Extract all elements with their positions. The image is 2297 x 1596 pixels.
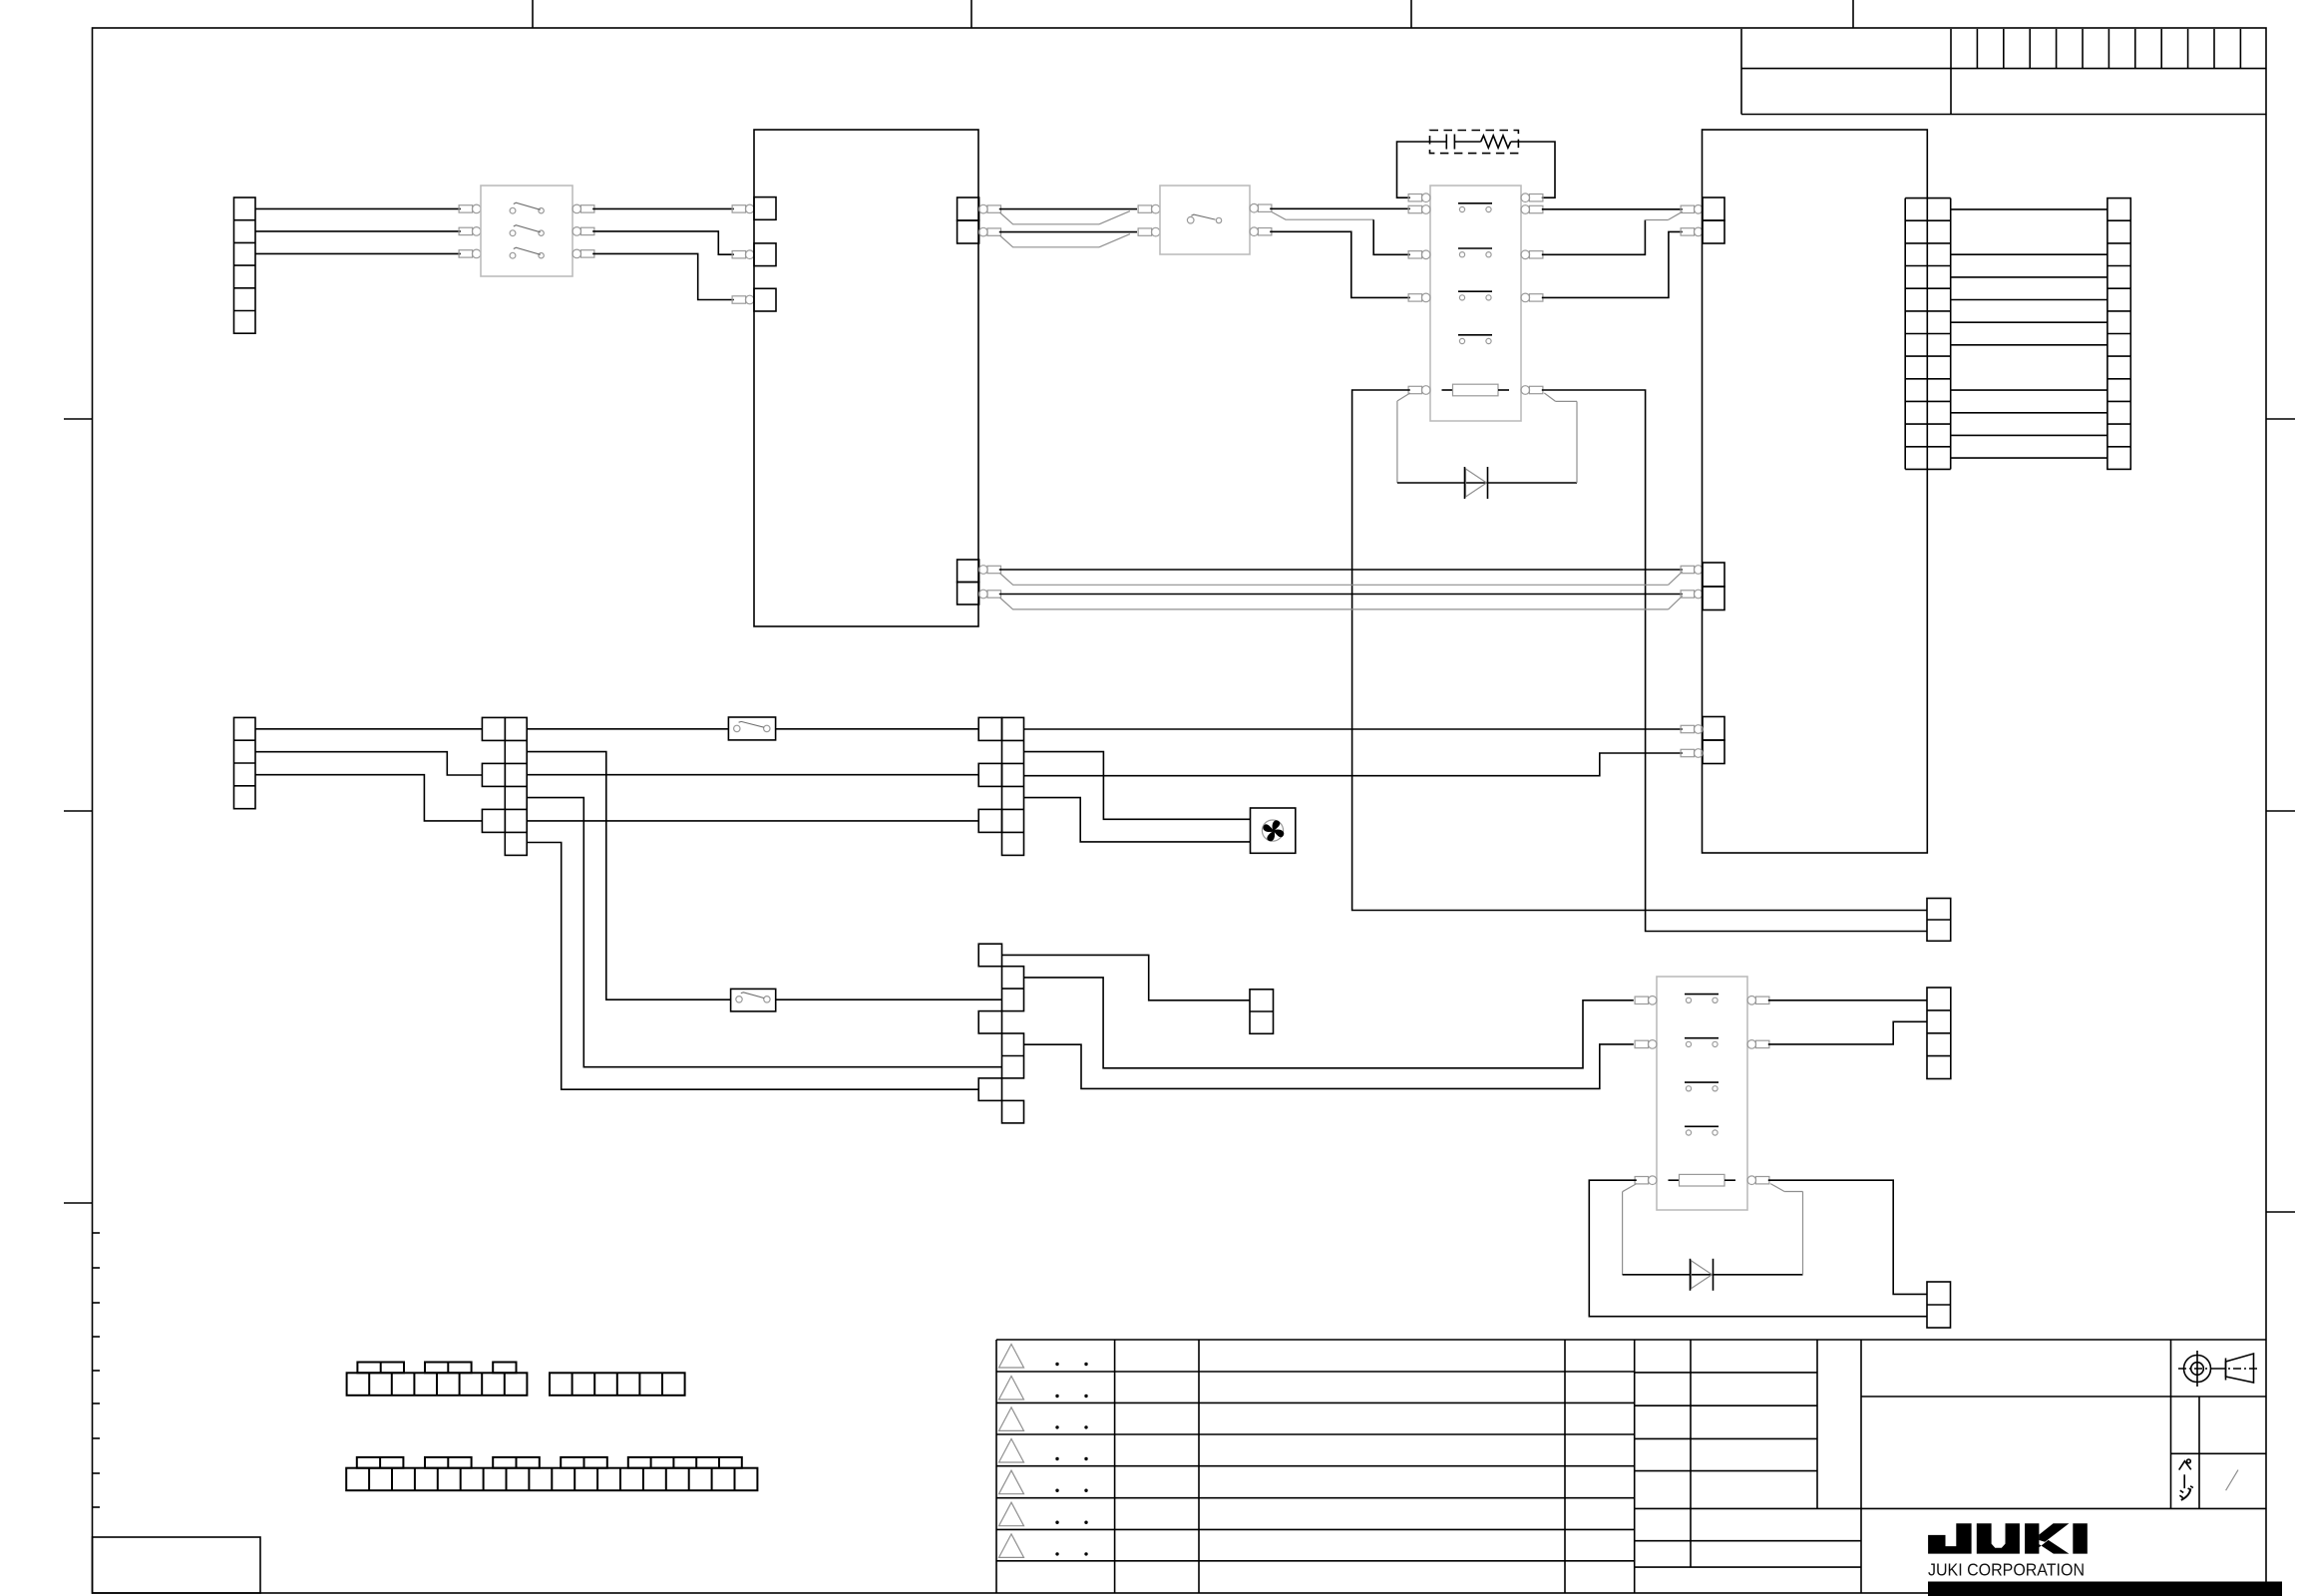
wire RY1 coil right to connector CN-C2: [1542, 390, 1927, 932]
wire pair PSU E2 to CTRL G2 (return): [999, 598, 1668, 609]
crimp terminal SW2 out1: [1250, 203, 1259, 212]
capacitor C1 plates: [1445, 135, 1447, 150]
relay RY2 coil crimp right: [1747, 1176, 1756, 1185]
wire SW1 to PSU pin C: [592, 253, 734, 299]
wire RY2 coil right to connector CN-I1: [1768, 1180, 1927, 1294]
relay RY1 snubber crimp right: [1521, 194, 1530, 202]
wire SW1 to PSU pin B: [592, 231, 734, 254]
wire CN-B pin1 to CN-D: [255, 728, 482, 730]
relay RY1 contacts 1-4: [1458, 202, 1492, 204]
wire SW2 to relay RY1 contact 1: [1270, 207, 1410, 209]
crimp terminal PSU out E1: [979, 566, 988, 575]
crimp terminal PSU out D1: [979, 204, 988, 213]
wire CN-A pin1 to switch SW1: [255, 207, 461, 209]
relay RY1 contact2 crimp right: [1521, 250, 1530, 259]
relay RY2 contact1 crimp right: [1747, 997, 1756, 1005]
wire pair PSU E2 to CTRL G2 (black): [999, 594, 1683, 596]
top edge zone tick 4: [1852, 0, 1854, 28]
wire resistor to relay RY1 right snubber terminal: [1511, 142, 1555, 198]
title block middle rows: [1635, 1372, 1817, 1374]
wire CN-B pin2 to CN-D: [255, 752, 482, 775]
relay RY2 coil loop left (return): [1623, 1184, 1637, 1192]
left border ruler ticks: [92, 1232, 100, 1234]
wire CN-B pin3 to CN-D: [255, 775, 482, 821]
PSU pin box A: [754, 198, 776, 220]
top edge zone tick 1: [532, 0, 534, 28]
wire CN-D r4 down to CN-G: [527, 798, 1001, 1067]
crimp terminal SW2 in1: [1138, 205, 1152, 212]
wire pair PSU E1 to CTRL G1 (black): [999, 569, 1683, 571]
wire CN-E r3 to CTRL pin H2: [1024, 753, 1683, 776]
wire RY1 coil left to connector CN-C1: [1352, 390, 1927, 911]
wire pair SW2 to relay RY1 contact 2 (return jog): [1272, 212, 1373, 220]
wire pair PSU E1 to CTRL G1 (return): [999, 574, 1668, 586]
wire CN-D r1 to thermostat SW3: [527, 728, 728, 730]
crimp terminal SW1 out2: [573, 227, 581, 236]
wire CN-E r1 to CTRL pin H1: [1024, 728, 1683, 730]
connector pair CN-G (staggered 8-pin): [978, 944, 1001, 967]
relay RY2 contacts 1-4: [1685, 994, 1719, 996]
right edge zone tick 3: [2266, 1211, 2295, 1213]
relay RY1 contact3 crimp left: [1408, 294, 1422, 301]
relay RY2 coil loop right (return): [1770, 1184, 1784, 1192]
wire SW2 to relay RY1 contact 3: [1270, 231, 1410, 297]
relay RY1 contact1 crimp right: [1521, 205, 1530, 214]
wire CN-G r5 to relay RY2 contact2: [1024, 1044, 1634, 1089]
connector CN-A (6-pin, mains input): [234, 198, 256, 333]
relay RY1 contact3 crimp right: [1521, 293, 1530, 302]
title block lower rows: [1635, 1540, 1861, 1542]
crimp terminal PSU out E2: [979, 590, 988, 598]
cooling fan FM1: [1251, 808, 1296, 853]
wire pair PSU D1 to switch SW2 (return): [999, 212, 1099, 224]
crimp terminal CTRL pin H1: [1681, 725, 1695, 732]
wire pair PSU D2 to switch SW2 (black): [999, 231, 1137, 233]
left edge zone tick 1: [64, 418, 92, 420]
wire CN-A pin3 to switch SW1: [255, 252, 461, 254]
PSU pin box B: [754, 243, 776, 266]
crimp terminal CTRL pin F2: [1681, 228, 1695, 235]
power supply box PSU: [754, 130, 978, 626]
page cell divider: [2198, 1396, 2200, 1508]
crimp terminal CTRL pin G1: [1681, 566, 1695, 573]
relay RY1 coil crimp left: [1408, 386, 1422, 393]
JUKI logo: [1928, 1523, 1972, 1553]
wire RY1 contact1 to CTRL pin F1: [1542, 208, 1683, 210]
wire RY2 contact1 to connector CN-F1: [1768, 999, 1927, 1001]
bottom-left reference box: [93, 1537, 261, 1593]
left edge zone tick 2: [64, 810, 92, 812]
wire RY2 contact2 to connector CN-F2: [1768, 1021, 1927, 1044]
legend connector group 3 (18-pin with keys): [346, 1468, 757, 1491]
CTRL pin box F1-F2: [1703, 198, 1724, 220]
wire CN-D r6 down to CN-G: [527, 843, 978, 1090]
crimp terminal SW2 out2: [1250, 227, 1259, 236]
connector pair CN-D (staggered 6-pin): [482, 717, 505, 740]
drawing number row: [1861, 1396, 2266, 1397]
main power switch SW1 (3-pole): [481, 186, 573, 276]
relay RY1 coil loop left (return): [1397, 393, 1410, 401]
wire pair PSU D2 to switch SW2 (return): [999, 235, 1099, 247]
relay RY1 snubber crimp left: [1408, 195, 1422, 201]
crimp terminal SW1 in1: [459, 205, 473, 212]
top-right revision strip table outline: [1740, 29, 1742, 115]
crimp terminal SW2 in2: [1138, 228, 1152, 235]
wire CN-G r2 to relay RY2 contact1: [1024, 978, 1634, 1068]
title block thick divider 4: [2170, 1340, 2172, 1508]
thermostat switch SW3: [728, 717, 775, 740]
top edge zone tick 3: [1410, 0, 1412, 28]
wire relay RY1 snubber terminal to RC box: [1397, 142, 1447, 198]
relay RY1 body: [1430, 186, 1521, 421]
title block thick divider 1: [1634, 1340, 1636, 1593]
page cell row: [2171, 1452, 2267, 1454]
top-right strip column dividers: [1976, 29, 1978, 69]
legend connector group 2 (6-pin): [550, 1373, 685, 1396]
wire CN-D r2 down to SW4: [527, 752, 730, 1000]
PSU output pin box E1-E2: [957, 560, 979, 583]
connector CN-J (12-pin, on CTRL right edge): [1904, 199, 1906, 470]
title block middle column thin: [1690, 1340, 1692, 1567]
wire CN-E r4 to fan FM1: [1024, 798, 1251, 842]
relay RY1 coil crimp right: [1521, 386, 1530, 395]
left edge zone tick 3: [64, 1202, 92, 1204]
wire CN-A pin2 to switch SW1: [255, 230, 461, 232]
wire RY1 contact2 to CTRL pin F1 (return): [1542, 220, 1646, 255]
crimp terminal SW1 out3: [573, 249, 581, 258]
page number slash: [2226, 1470, 2238, 1491]
crimp terminal SW1 in3: [459, 250, 473, 257]
revision marks (triangles and date dots): [999, 1345, 1024, 1369]
title block divider 3: [1860, 1340, 1862, 1508]
crimp terminal SW1 out1: [573, 204, 581, 213]
wire pair PSU D1 to switch SW2 (black): [999, 208, 1137, 210]
crimp terminal SW1 in2: [459, 227, 473, 234]
wire SW3 to CN-E: [776, 728, 979, 730]
svg-text:JUKI CORPORATION: JUKI CORPORATION: [1928, 1559, 2085, 1579]
wire capacitor to resistor: [1454, 141, 1480, 143]
title block thick divider 2: [1816, 1340, 1818, 1508]
diode D1: [1466, 469, 1487, 497]
relay RY2 coil crimp left: [1635, 1177, 1649, 1184]
connector CN-I (coil RY2): [1927, 1282, 1951, 1328]
right edge zone tick 1: [2266, 418, 2295, 420]
wire RY2 coil left to connector CN-I2: [1589, 1180, 1927, 1317]
PSU output pin box D1-D2: [957, 198, 979, 220]
wire RY1 contact3 to CTRL pin F2: [1542, 231, 1683, 297]
title block outline: [996, 1339, 2266, 1341]
relay RY1 contact2 crimp left: [1408, 251, 1422, 258]
legend connector group 1 (8-pin with keys): [347, 1373, 528, 1396]
relay RY2 contact1 crimp left: [1635, 997, 1649, 1003]
connector CN-H (2-pin): [1250, 990, 1274, 1034]
wire CN-D r3 to CN-E: [527, 774, 978, 776]
connector pair CN-E (staggered 6-pin): [978, 717, 1001, 740]
CTRL pin box G1-G2: [1703, 563, 1724, 587]
relay RY2 contact2 crimp left: [1635, 1040, 1649, 1047]
control box CTRL: [1703, 130, 1928, 853]
relay RY1 coil: [1442, 389, 1453, 391]
wire SW4 to CN-G: [776, 998, 1002, 1000]
crimp terminal PSU pin C: [732, 296, 746, 303]
connector CN-F (4-pin): [1927, 988, 1951, 1079]
harness wires CN-J to CN-K: [1951, 208, 2107, 210]
wire CN-E r2 to fan FM1: [1024, 752, 1251, 820]
title block approval row thick: [1635, 1507, 2266, 1509]
revision table rows: [996, 1371, 1635, 1373]
connector CN-K (12-pin header): [2107, 199, 2130, 470]
wire RY2 freewheel diode branch: [1623, 1274, 1803, 1276]
crimp terminal PSU out D2: [979, 227, 988, 236]
crimp terminal CTRL pin H2: [1681, 749, 1695, 756]
power switch SW2: [1160, 186, 1250, 254]
PSU pin box C: [754, 288, 776, 311]
relay RY2 contact2 crimp right: [1747, 1040, 1756, 1049]
wire CN-D r5 to CN-E: [527, 820, 978, 822]
relay RY2 body: [1657, 977, 1747, 1210]
title block bottom bar: [1928, 1582, 2282, 1596]
crimp terminal CTRL pin G2: [1681, 591, 1695, 598]
RC snubber dashed enclosure: [1430, 131, 1519, 154]
connector CN-B (4-pin): [234, 717, 256, 808]
revision table columns: [1114, 1340, 1116, 1593]
CTRL pin box H1-H2: [1703, 717, 1724, 741]
third-angle projection symbol: [2184, 1356, 2211, 1383]
resistor R1 zigzag: [1481, 136, 1511, 148]
diode D2: [1692, 1261, 1713, 1289]
crimp terminal PSU pin B: [732, 251, 746, 258]
wire RY1 freewheel diode branch: [1397, 482, 1577, 484]
top edge zone tick 2: [970, 0, 972, 28]
pressure switch SW4: [731, 989, 776, 1011]
wire CN-G r1 to connector CN-H: [1002, 955, 1251, 999]
relay RY1 coil loop right (return): [1544, 393, 1555, 401]
crimp terminal CTRL pin F1: [1681, 205, 1695, 212]
wire SW1 to PSU pin A: [592, 207, 734, 209]
right edge zone tick 2: [2266, 810, 2295, 812]
connector CN-C (coil RY1): [1927, 899, 1951, 942]
relay RY2 coil: [1669, 1179, 1680, 1181]
crimp terminal PSU pin A: [732, 205, 746, 212]
page label (vertical Japanese): [2179, 1461, 2191, 1470]
relay RY1 contact1 crimp left: [1408, 205, 1422, 212]
